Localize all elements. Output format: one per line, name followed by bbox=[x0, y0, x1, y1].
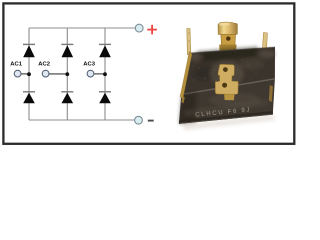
wire leg 1 bbox=[28, 28, 30, 120]
diode D5 bbox=[61, 92, 73, 104]
bridge rectifier photo: shadow bbox=[182, 115, 276, 130]
bridge rectifier photo: gold tab on body (8-shape) bbox=[215, 64, 238, 100]
bridge rectifier photo: right pin bbox=[262, 33, 267, 53]
diode D3 bbox=[99, 44, 111, 57]
terminal AC3 bbox=[87, 70, 94, 77]
bridge rectifier photo: left edge gold sliver lower tip bbox=[181, 96, 185, 104]
junction node 2 bbox=[65, 72, 69, 76]
diode D1 bbox=[23, 44, 35, 57]
bridge rectifier photo: front-top bevel edge bbox=[182, 79, 275, 95]
bridge rectifier photo: left pin bbox=[187, 29, 191, 55]
bridge rectifier photo: center tab blade bbox=[218, 22, 237, 52]
label - bbox=[148, 120, 154, 122]
terminal AC1 bbox=[14, 70, 21, 77]
svg-text:AC1: AC1 bbox=[10, 62, 23, 68]
diode D4 bbox=[23, 92, 35, 104]
wire top bus (+) bbox=[29, 27, 135, 29]
bridge rectifier photo: right pin base bbox=[261, 49, 270, 55]
bridge rectifier photo: front face bottom dark strip bbox=[179, 111, 273, 124]
wire leg 2 bbox=[66, 28, 68, 120]
wire leg 3 bbox=[104, 28, 106, 120]
bridge rectifier photo: left edge gold sliver bbox=[180, 52, 192, 100]
diode D6 bbox=[99, 92, 111, 104]
bridge rectifier photo: right edge gold streak bbox=[269, 85, 273, 102]
label + bbox=[147, 25, 157, 35]
diode D2 bbox=[61, 44, 73, 57]
bridge rectifier photo: front face lighter center bbox=[209, 93, 261, 107]
border frame bbox=[3, 3, 294, 143]
junction node 3 bbox=[103, 72, 107, 76]
wire AC1 lead bbox=[21, 73, 29, 75]
wire bottom bus (-) bbox=[29, 119, 135, 121]
wire AC2 lead bbox=[49, 73, 67, 75]
terminal - bbox=[135, 116, 143, 124]
bridge rectifier photo: top face mottled lighter areas bbox=[189, 47, 275, 87]
junction node 1 bbox=[27, 72, 31, 76]
svg-text:AC2: AC2 bbox=[38, 62, 51, 68]
bridge rectifier photo: top face dust specks bbox=[193, 59, 256, 80]
terminal AC2 bbox=[42, 70, 49, 77]
bridge rectifier photo: front face left dark wedge bbox=[179, 92, 197, 124]
wire AC3 lead bbox=[94, 73, 105, 75]
bridge rectifier photo: body top face bbox=[181, 47, 275, 95]
bridge rectifier photo: body front face bbox=[179, 79, 275, 124]
bridge rectifier photo: bottom edge bevel bbox=[180, 114, 273, 123]
terminal + bbox=[135, 24, 143, 32]
svg-text:AC3: AC3 bbox=[83, 62, 96, 68]
bridge rectifier photo: text band highlight bbox=[184, 100, 269, 117]
